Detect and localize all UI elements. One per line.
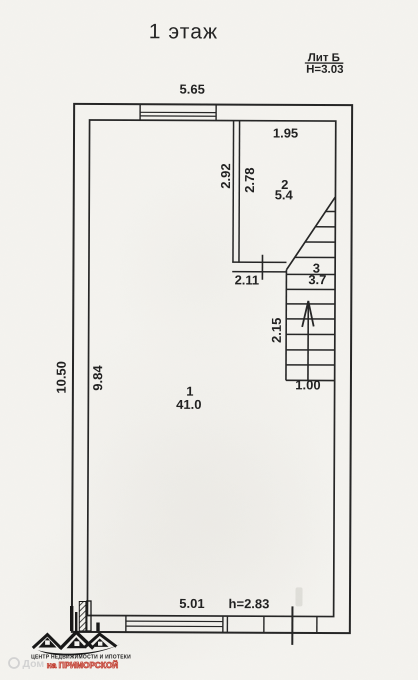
logo right house: [85, 634, 117, 647]
window top: middle lines: [140, 111, 216, 113]
window bottom: end dividers: [125, 616, 127, 632]
logo hatched tower: [79, 602, 86, 632]
stair direction arrow shaft: [307, 301, 309, 380]
window top: end dividers: [139, 104, 141, 120]
staircase bottom edge: [286, 379, 334, 381]
window bottom: middle lines: [126, 620, 223, 622]
logo tower bar 1: [70, 606, 73, 631]
staircase left edge: [285, 270, 287, 380]
staircase treads: [286, 273, 334, 275]
bottom wall divider right: [316, 616, 318, 632]
logo left house: [33, 635, 61, 648]
outer wall: [72, 104, 352, 633]
logo watermark group: [9, 601, 131, 670]
logo outlined tower: [87, 601, 91, 631]
underline of Лит Б: [305, 62, 343, 64]
logo small bar: [96, 623, 99, 632]
logo center house: [60, 632, 93, 649]
bottom wall tick: [291, 606, 293, 644]
logo grey watermark circle: [9, 658, 19, 668]
logo swoosh: [38, 644, 121, 655]
faint smudge near bottom tick: [295, 587, 302, 606]
stair arrow barbs: [302, 301, 308, 327]
inner wall: [87, 120, 335, 617]
logo tower bar 2: [75, 612, 77, 631]
partition wall of room 2 (horizontal, double line): [232, 261, 286, 263]
staircase diagonal cut line: [286, 197, 335, 270]
staircase partial treads (above cut): [325, 211, 335, 213]
bottom wall divider: [263, 616, 265, 632]
partition wall of room 2 (vertical, double line): [232, 121, 235, 263]
door tick on partition: [261, 255, 263, 280]
